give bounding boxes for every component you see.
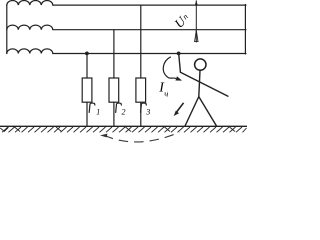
- svg-text:ч: ч: [164, 89, 168, 99]
- svg-text:2: 2: [122, 108, 126, 117]
- svg-text:1: 1: [96, 108, 100, 117]
- svg-text:3: 3: [145, 108, 150, 117]
